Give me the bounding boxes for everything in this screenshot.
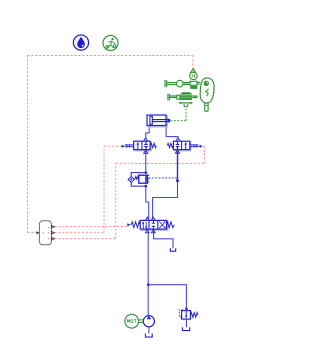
valve V1 (left 2/2, pilot left spring right) <box>122 138 157 154</box>
node: right branch pilot junction <box>176 179 179 182</box>
V3 box3 crossed arrows <box>159 221 165 228</box>
red signal line: pin3 to right valve pilot <box>55 146 205 238</box>
V2 right box flow arrow <box>184 142 187 149</box>
V1 left box flow arrow <box>137 142 140 149</box>
V3 box1 parallel arrows <box>142 221 147 229</box>
spring small <box>135 177 139 180</box>
V4 pilot dashed <box>179 310 184 317</box>
V3 pilot arrow <box>127 223 131 226</box>
red signal line: pin1 to main valve pilot <box>55 226 128 228</box>
tool: handle tail <box>205 103 208 111</box>
green dashed mechanical link rod-tool <box>171 107 187 120</box>
cylinder rod tip <box>168 119 171 123</box>
V1 right box blocked T <box>144 141 148 149</box>
distributor box (signal splitter) <box>36 221 54 245</box>
check valve diamond <box>128 176 134 182</box>
red signal line: pin2 to left valve pilot <box>55 146 122 232</box>
V1 spring <box>150 143 156 147</box>
V2 pilot connector <box>190 145 199 147</box>
wire: flow control to main valve port A <box>146 186 149 219</box>
tool: gauge head <box>190 69 201 89</box>
V3 box2 blocked <box>152 220 155 229</box>
wire: left valve bottom to flow control <box>145 151 147 173</box>
tool: gun body (bean) <box>200 78 214 111</box>
wire: relief valve to tank <box>185 319 187 327</box>
main valve V3 (4/3 way, spring centered) <box>127 217 174 233</box>
V2 pilot arrow <box>198 145 201 148</box>
V2 bottom port arrow <box>175 150 179 153</box>
V3 left spring <box>131 222 140 228</box>
V1 pilot connector <box>125 145 134 147</box>
suction tank T2 <box>145 334 152 338</box>
wire: junction to main valve port B <box>153 181 178 220</box>
V3 right spring <box>167 222 175 228</box>
pilot dashes <box>148 174 150 182</box>
red signal line: top trunk horizontal <box>28 56 205 239</box>
red signal line: left trunk vertical <box>27 56 29 233</box>
V1 bottom port arrow <box>144 150 148 153</box>
wire: pump to suction tank <box>148 327 150 334</box>
V2 spring <box>167 143 173 147</box>
pump P1 <box>143 316 154 327</box>
tool: polisher lower <box>168 92 198 107</box>
valve V2 (right 2/2, spring left pilot right) <box>167 138 201 154</box>
flow control valve with check bypass <box>128 173 177 187</box>
bypass loop wire <box>131 173 146 187</box>
cylinder rod <box>152 120 169 122</box>
tool: valve block <box>190 81 197 85</box>
motor M1 <box>125 314 139 328</box>
node: pump line tee <box>147 283 150 286</box>
node: relief pilot tap <box>185 308 187 310</box>
V1 top port arrow <box>144 138 148 141</box>
wire: right valve bottom down <box>177 151 179 181</box>
exhaust tank T1 <box>170 248 175 251</box>
cylinder piston <box>150 116 152 124</box>
node: flow control bottom junction <box>145 185 148 188</box>
icon: green runner button <box>103 36 118 51</box>
wire: branch to relief valve <box>148 285 186 311</box>
cylinder A1 (double acting) <box>147 115 170 127</box>
red signal line: drop to gauge <box>192 56 194 69</box>
red signal line: into distributor left pin <box>28 231 37 233</box>
motor-pump shaft <box>139 320 144 323</box>
V1 pilot arrow <box>122 145 125 148</box>
wire: main valve P port to pump <box>147 230 149 315</box>
tool: handle rod with ball <box>165 80 190 87</box>
relief valve V4 <box>179 310 198 319</box>
tool: slide arrow bar <box>180 102 193 105</box>
V2 left box blocked T <box>176 141 180 149</box>
wire: cylinder cap port to left valve <box>146 126 187 334</box>
wire: cylinder rod port to right valve <box>166 126 178 140</box>
valve body box <box>139 175 148 183</box>
V2 top port arrow <box>176 138 180 141</box>
V3 top port arrows <box>145 217 149 220</box>
node: flow control top junction <box>145 171 148 174</box>
wire: main valve T port to exhaust tank <box>154 230 173 248</box>
V3 bottom port arrows <box>145 230 149 233</box>
V4 spring <box>191 313 199 318</box>
relief tank T3 <box>182 327 189 330</box>
icon: fluid drop button <box>73 35 88 50</box>
